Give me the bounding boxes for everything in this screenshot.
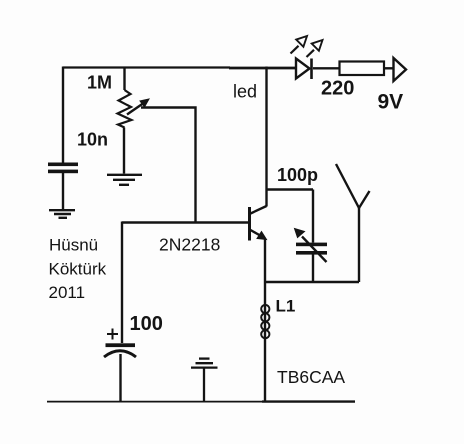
wire R2 to 9V connector: [384, 67, 394, 69]
antenna V arms: [336, 164, 370, 208]
wire LED to R2: [313, 67, 339, 69]
svg-text:100: 100: [130, 313, 163, 335]
potentiometer R1 lower lead: [123, 128, 125, 174]
wire varicap top lead: [312, 190, 314, 243]
wire top rail (+9V rail): [63, 66, 230, 68]
capacitor C2 100uF plates: [104, 343, 136, 357]
capacitor C1 10n: [48, 163, 78, 174]
capacitor C2 100uF electrolytic plus sign: [107, 329, 118, 340]
transistor Q1 2N2218 base bar: [248, 207, 251, 241]
inductor L1 coil: [261, 305, 269, 338]
resistor R2 220 body: [340, 62, 385, 76]
svg-text:L1: L1: [276, 297, 296, 316]
ground (left, under C1): [49, 210, 75, 218]
wire base node down to C2: [121, 222, 123, 344]
svg-text:2011: 2011: [49, 283, 86, 302]
wire left vertical (rail to C1): [62, 67, 64, 164]
svg-text:Hüsnü: Hüsnü: [49, 236, 98, 255]
wire emitter rail to antenna (horizontal): [264, 281, 359, 283]
variable capacitor VC1 arrow: [295, 229, 327, 263]
potentiometer R1 lead (rail to zigzag): [123, 67, 125, 91]
svg-text:9V: 9V: [378, 91, 404, 114]
wire C1 to ground: [62, 173, 64, 209]
wire bottom rail (ground rail): [47, 401, 262, 403]
LED D1 emission arrow 1: [291, 36, 308, 54]
LED D1 cathode bar: [310, 59, 313, 80]
svg-text:Köktürk: Köktürk: [49, 260, 107, 279]
svg-text:2N2218: 2N2218: [159, 235, 220, 255]
wire collector node to varicap (horizontal): [266, 188, 314, 190]
wire base (node to Q1 base): [122, 221, 249, 223]
wire varicap bottom lead: [312, 255, 314, 283]
wire C2 to bottom rail: [119, 354, 121, 401]
LED D1 emission arrow 2: [307, 40, 323, 57]
antenna stem: [358, 208, 360, 282]
variable capacitor VC1 plates: [296, 243, 327, 255]
svg-text:10n: 10n: [77, 130, 108, 150]
svg-text:led: led: [233, 82, 257, 102]
ground (under potentiometer R1): [107, 175, 142, 185]
wire collector vertical (top rail down to Q1): [265, 67, 267, 207]
potentiometer R1 1M zigzag body: [118, 90, 132, 128]
wire wiper to base node (right then down): [141, 108, 196, 223]
wire L1 to bottom rail: [264, 343, 266, 402]
9V supply connector triangle: [394, 58, 407, 81]
potentiometer R1 wiper arrow: [127, 99, 149, 115]
transistor Q1 emitter diagonal with arrow: [251, 230, 267, 240]
svg-text:TB6CAA: TB6CAA: [277, 367, 345, 387]
transistor Q1 collector diagonal: [251, 206, 267, 214]
wire emitter vertical (Q1 to L1): [264, 239, 266, 303]
svg-text:100p: 100p: [277, 165, 318, 185]
LED D1 triangle: [296, 59, 310, 79]
svg-text:1M: 1M: [87, 73, 112, 93]
ground (middle, inverted above bottom rail): [191, 359, 218, 401]
svg-text:220: 220: [321, 78, 354, 100]
